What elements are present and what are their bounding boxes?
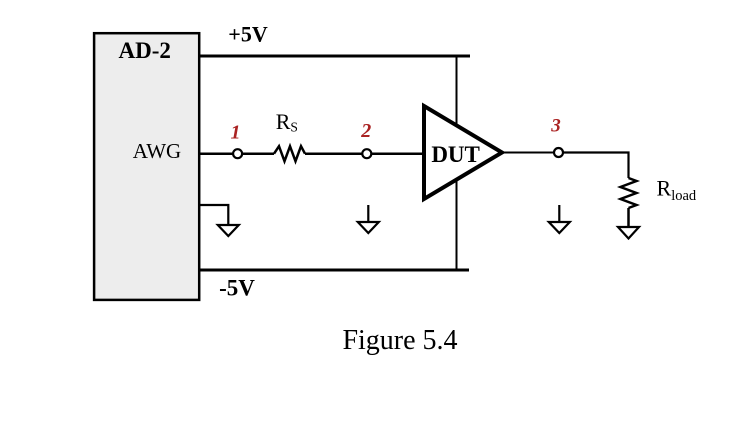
svg-text:DUT: DUT <box>431 142 480 167</box>
svg-text:RS: RS <box>276 109 298 135</box>
svg-text:AWG: AWG <box>133 139 181 163</box>
svg-text:Figure 5.4: Figure 5.4 <box>342 325 457 356</box>
svg-text:+5V: +5V <box>228 22 268 47</box>
svg-text:AD-2: AD-2 <box>119 38 171 63</box>
svg-text:-5V: -5V <box>219 276 255 301</box>
svg-text:3: 3 <box>550 116 561 137</box>
svg-text:1: 1 <box>231 122 241 144</box>
svg-text:2: 2 <box>360 120 371 142</box>
svg-text:Rload: Rload <box>657 176 697 205</box>
